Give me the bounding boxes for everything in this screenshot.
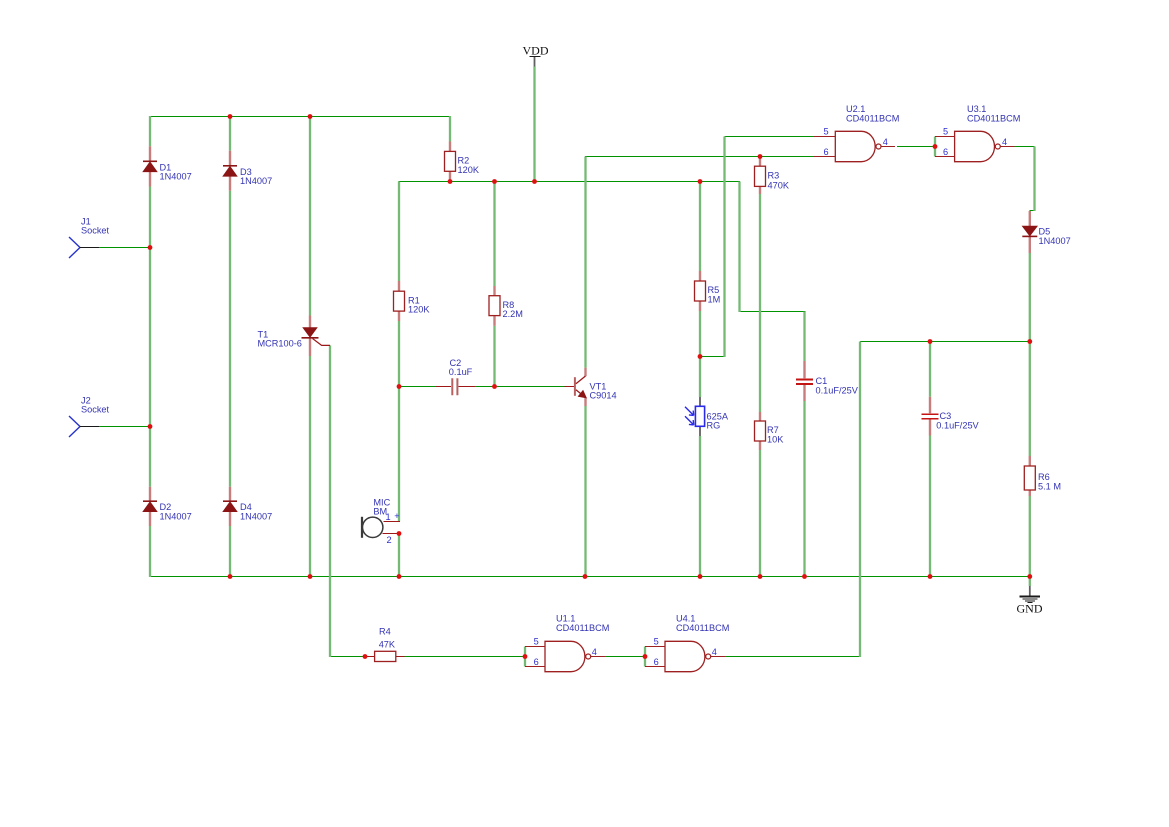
node C3 top xyxy=(928,339,933,344)
svg-text:120K: 120K xyxy=(408,305,430,315)
capacitor C3 xyxy=(921,397,938,436)
wire U4 output riser x860 xyxy=(859,342,861,658)
svg-text:4: 4 xyxy=(1002,137,1007,147)
node top bus x230 xyxy=(228,114,233,119)
svg-text:4: 4 xyxy=(712,647,717,657)
svg-text:GND: GND xyxy=(1017,601,1043,615)
resistor R3 xyxy=(755,159,766,195)
node rail VDD xyxy=(532,179,537,184)
node gnd x585 xyxy=(583,574,588,579)
ground GND symbol xyxy=(1020,586,1040,602)
svg-text:1N4007: 1N4007 xyxy=(240,176,272,186)
svg-text:1N4007: 1N4007 xyxy=(240,512,272,522)
wire SCR gate riser x330 xyxy=(329,345,331,657)
wire D5/R6 branch x1030 xyxy=(1029,253,1031,586)
node gnd x804 xyxy=(802,574,807,579)
svg-text:6: 6 xyxy=(534,657,539,667)
svg-text:CD4011BCM: CD4011BCM xyxy=(967,113,1020,123)
svg-text:5.1 M: 5.1 M xyxy=(1038,482,1061,492)
node C2 right xyxy=(492,384,497,389)
svg-text:Socket: Socket xyxy=(81,226,110,236)
wire U2 pin5 net xyxy=(725,136,815,138)
wire U2 out to U3 in xyxy=(897,146,935,148)
svg-text:R4: R4 xyxy=(379,626,391,636)
node R3 top xyxy=(758,154,763,159)
svg-text:CD4011BCM: CD4011BCM xyxy=(556,623,609,633)
power port VDD xyxy=(530,57,541,67)
wire jog to C1 xyxy=(740,311,806,313)
svg-text:MCR100-6: MCR100-6 xyxy=(258,339,302,349)
svg-text:1N4007: 1N4007 xyxy=(160,512,192,522)
svg-text:1: 1 xyxy=(386,512,391,522)
node gnd x230 xyxy=(228,574,233,579)
node gnd x399 xyxy=(397,574,402,579)
resistor R4 xyxy=(365,651,405,661)
wire J1 to bridge xyxy=(99,247,151,249)
svg-text:0.1uF: 0.1uF xyxy=(449,367,473,377)
svg-text:CD4011BCM: CD4011BCM xyxy=(676,623,729,633)
node rail R2 xyxy=(448,179,453,184)
svg-text:5: 5 xyxy=(654,637,659,647)
wire node row to D5/R6 xyxy=(860,341,1030,343)
node gnd x930 xyxy=(928,574,933,579)
wire VDD rail bus xyxy=(399,181,741,183)
node U1 input xyxy=(523,654,528,659)
node gnd x1030 xyxy=(1027,574,1032,579)
node J2 tap xyxy=(148,424,153,429)
svg-text:5: 5 xyxy=(534,637,539,647)
wire R1/C2/MIC branch x399 xyxy=(398,182,400,578)
wire C3 branch x930 xyxy=(929,342,931,578)
svg-text:6: 6 xyxy=(654,657,659,667)
svg-text:RG: RG xyxy=(707,421,721,431)
svg-text:2.2M: 2.2M xyxy=(503,309,523,319)
svg-text:6: 6 xyxy=(943,147,948,157)
wire U1 out to U4 in xyxy=(605,656,645,658)
wire VDD riser x534.5 xyxy=(533,67,535,182)
thyristor T1 xyxy=(302,316,331,357)
svg-text:4: 4 xyxy=(883,137,888,147)
svg-text:0.1uF/25V: 0.1uF/25V xyxy=(816,386,859,396)
svg-text:VDD: VDD xyxy=(523,43,549,57)
svg-text:CD4011BCM: CD4011BCM xyxy=(846,113,899,123)
wire R8 branch x494.5 xyxy=(493,182,495,387)
node R4 left xyxy=(363,654,368,659)
wire pin5 riser x724.5 xyxy=(723,137,725,358)
diode D2 xyxy=(143,487,157,526)
svg-text:47K: 47K xyxy=(379,639,396,649)
svg-text:6: 6 xyxy=(824,147,829,157)
svg-text:120K: 120K xyxy=(458,165,480,175)
svg-text:1M: 1M xyxy=(708,295,721,305)
wire R5/RG branch x700 xyxy=(699,182,701,578)
connector J2 xyxy=(69,416,99,437)
wire U3 out drop x1034.5 xyxy=(1033,147,1035,212)
node MIC pin2 xyxy=(397,531,402,536)
microphone MIC BM xyxy=(362,517,400,538)
resistor R7 xyxy=(755,412,766,450)
photoresistor RG 625A xyxy=(685,397,705,436)
node rail R5 xyxy=(698,179,703,184)
svg-text:10K: 10K xyxy=(767,435,784,445)
capacitor C2 xyxy=(436,378,475,395)
wire bridge rail x230 xyxy=(229,116,231,577)
svg-text:1N4007: 1N4007 xyxy=(160,172,192,182)
wire left bridge rail x150 xyxy=(149,116,151,577)
diode D3 xyxy=(223,151,237,191)
nand gate U1.1 xyxy=(525,641,605,671)
wire VT1 riser x585.5 xyxy=(584,157,586,578)
resistor R2 xyxy=(445,142,456,182)
nand gate U4.1 xyxy=(645,641,725,671)
node J1 tap xyxy=(148,245,153,250)
node gnd x700 xyxy=(698,574,703,579)
wire top bus xyxy=(150,116,451,118)
svg-text:2: 2 xyxy=(387,535,392,545)
wire U3 out xyxy=(1014,146,1035,148)
resistor R8 xyxy=(489,286,500,326)
svg-text:1N4007: 1N4007 xyxy=(1039,236,1071,246)
node R5 bottom xyxy=(698,354,703,359)
node rail R8 xyxy=(492,179,497,184)
diode D5 xyxy=(1022,211,1037,253)
svg-text:5: 5 xyxy=(824,127,829,137)
node top bus x310 xyxy=(308,114,313,119)
node C2 left xyxy=(397,384,402,389)
wire J2 to bridge xyxy=(99,426,151,428)
resistor R5 xyxy=(695,271,706,311)
resistor R1 xyxy=(394,281,405,321)
wire SCR branch x310 xyxy=(309,116,311,577)
node gnd x760 xyxy=(758,574,763,579)
svg-text:5: 5 xyxy=(943,127,948,137)
wire ground bus xyxy=(150,576,1031,578)
diode D4 xyxy=(223,487,237,526)
nand gate U2.1 xyxy=(814,131,895,161)
svg-text:0.1uF/25V: 0.1uF/25V xyxy=(936,421,979,431)
wire R2 top lead riser xyxy=(449,116,451,142)
wire rail drop x739.5 xyxy=(738,182,740,313)
wire C2 row left xyxy=(399,386,437,388)
wire jog above D5 xyxy=(1029,210,1035,212)
transistor VT1 xyxy=(565,368,587,406)
wire U4 out to riser xyxy=(725,656,861,658)
node U4 input xyxy=(643,654,648,659)
svg-text:R3: R3 xyxy=(768,171,780,181)
capacitor C1 xyxy=(796,361,813,401)
diode D1 xyxy=(143,146,157,186)
svg-text:C9014: C9014 xyxy=(590,391,617,401)
svg-text:4: 4 xyxy=(592,647,597,657)
wire C1 branch x804.5 xyxy=(803,312,805,578)
svg-text:+: + xyxy=(394,511,399,521)
wire R3/R7 branch x760 xyxy=(759,157,761,578)
node U3 input xyxy=(933,144,938,149)
wire R4 to U1 in xyxy=(405,656,525,658)
wire R5 bottom link xyxy=(700,356,726,358)
svg-text:Socket: Socket xyxy=(81,405,110,415)
wire U2 pin6 net xyxy=(585,156,814,158)
wire C2 row right to VT1 base xyxy=(475,386,565,388)
svg-text:470K: 470K xyxy=(768,181,790,191)
node D5 bottom xyxy=(1027,339,1032,344)
wire gate row left xyxy=(330,656,366,658)
resistor R6 xyxy=(1024,456,1035,496)
connector J1 xyxy=(69,237,99,258)
nand gate U3.1 xyxy=(935,131,1014,161)
node gnd x310 xyxy=(308,574,313,579)
